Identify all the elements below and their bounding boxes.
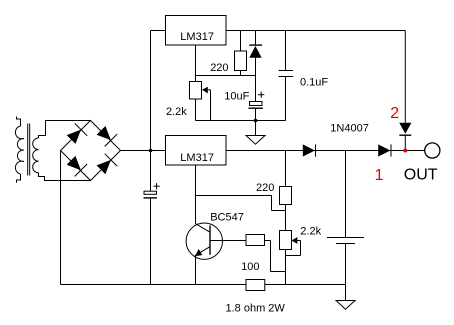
svg-text:1: 1 — [375, 167, 384, 184]
svg-text:220: 220 — [210, 62, 228, 74]
svg-text:2.2k: 2.2k — [300, 226, 321, 238]
svg-text:2: 2 — [390, 105, 399, 122]
svg-text:10uF: 10uF — [224, 91, 249, 103]
svg-text:1N4007: 1N4007 — [330, 123, 369, 135]
svg-text:LM317: LM317 — [180, 31, 214, 43]
svg-text:220: 220 — [256, 182, 274, 194]
svg-text:LM317: LM317 — [180, 152, 214, 164]
svg-text:0.1uF: 0.1uF — [300, 77, 328, 89]
svg-text:100: 100 — [241, 261, 259, 273]
svg-text:2.2k: 2.2k — [166, 106, 187, 118]
svg-text:OUT: OUT — [404, 167, 438, 184]
svg-text:BC547: BC547 — [210, 212, 244, 224]
svg-text:1.8 ohm 2W: 1.8 ohm 2W — [226, 303, 286, 315]
